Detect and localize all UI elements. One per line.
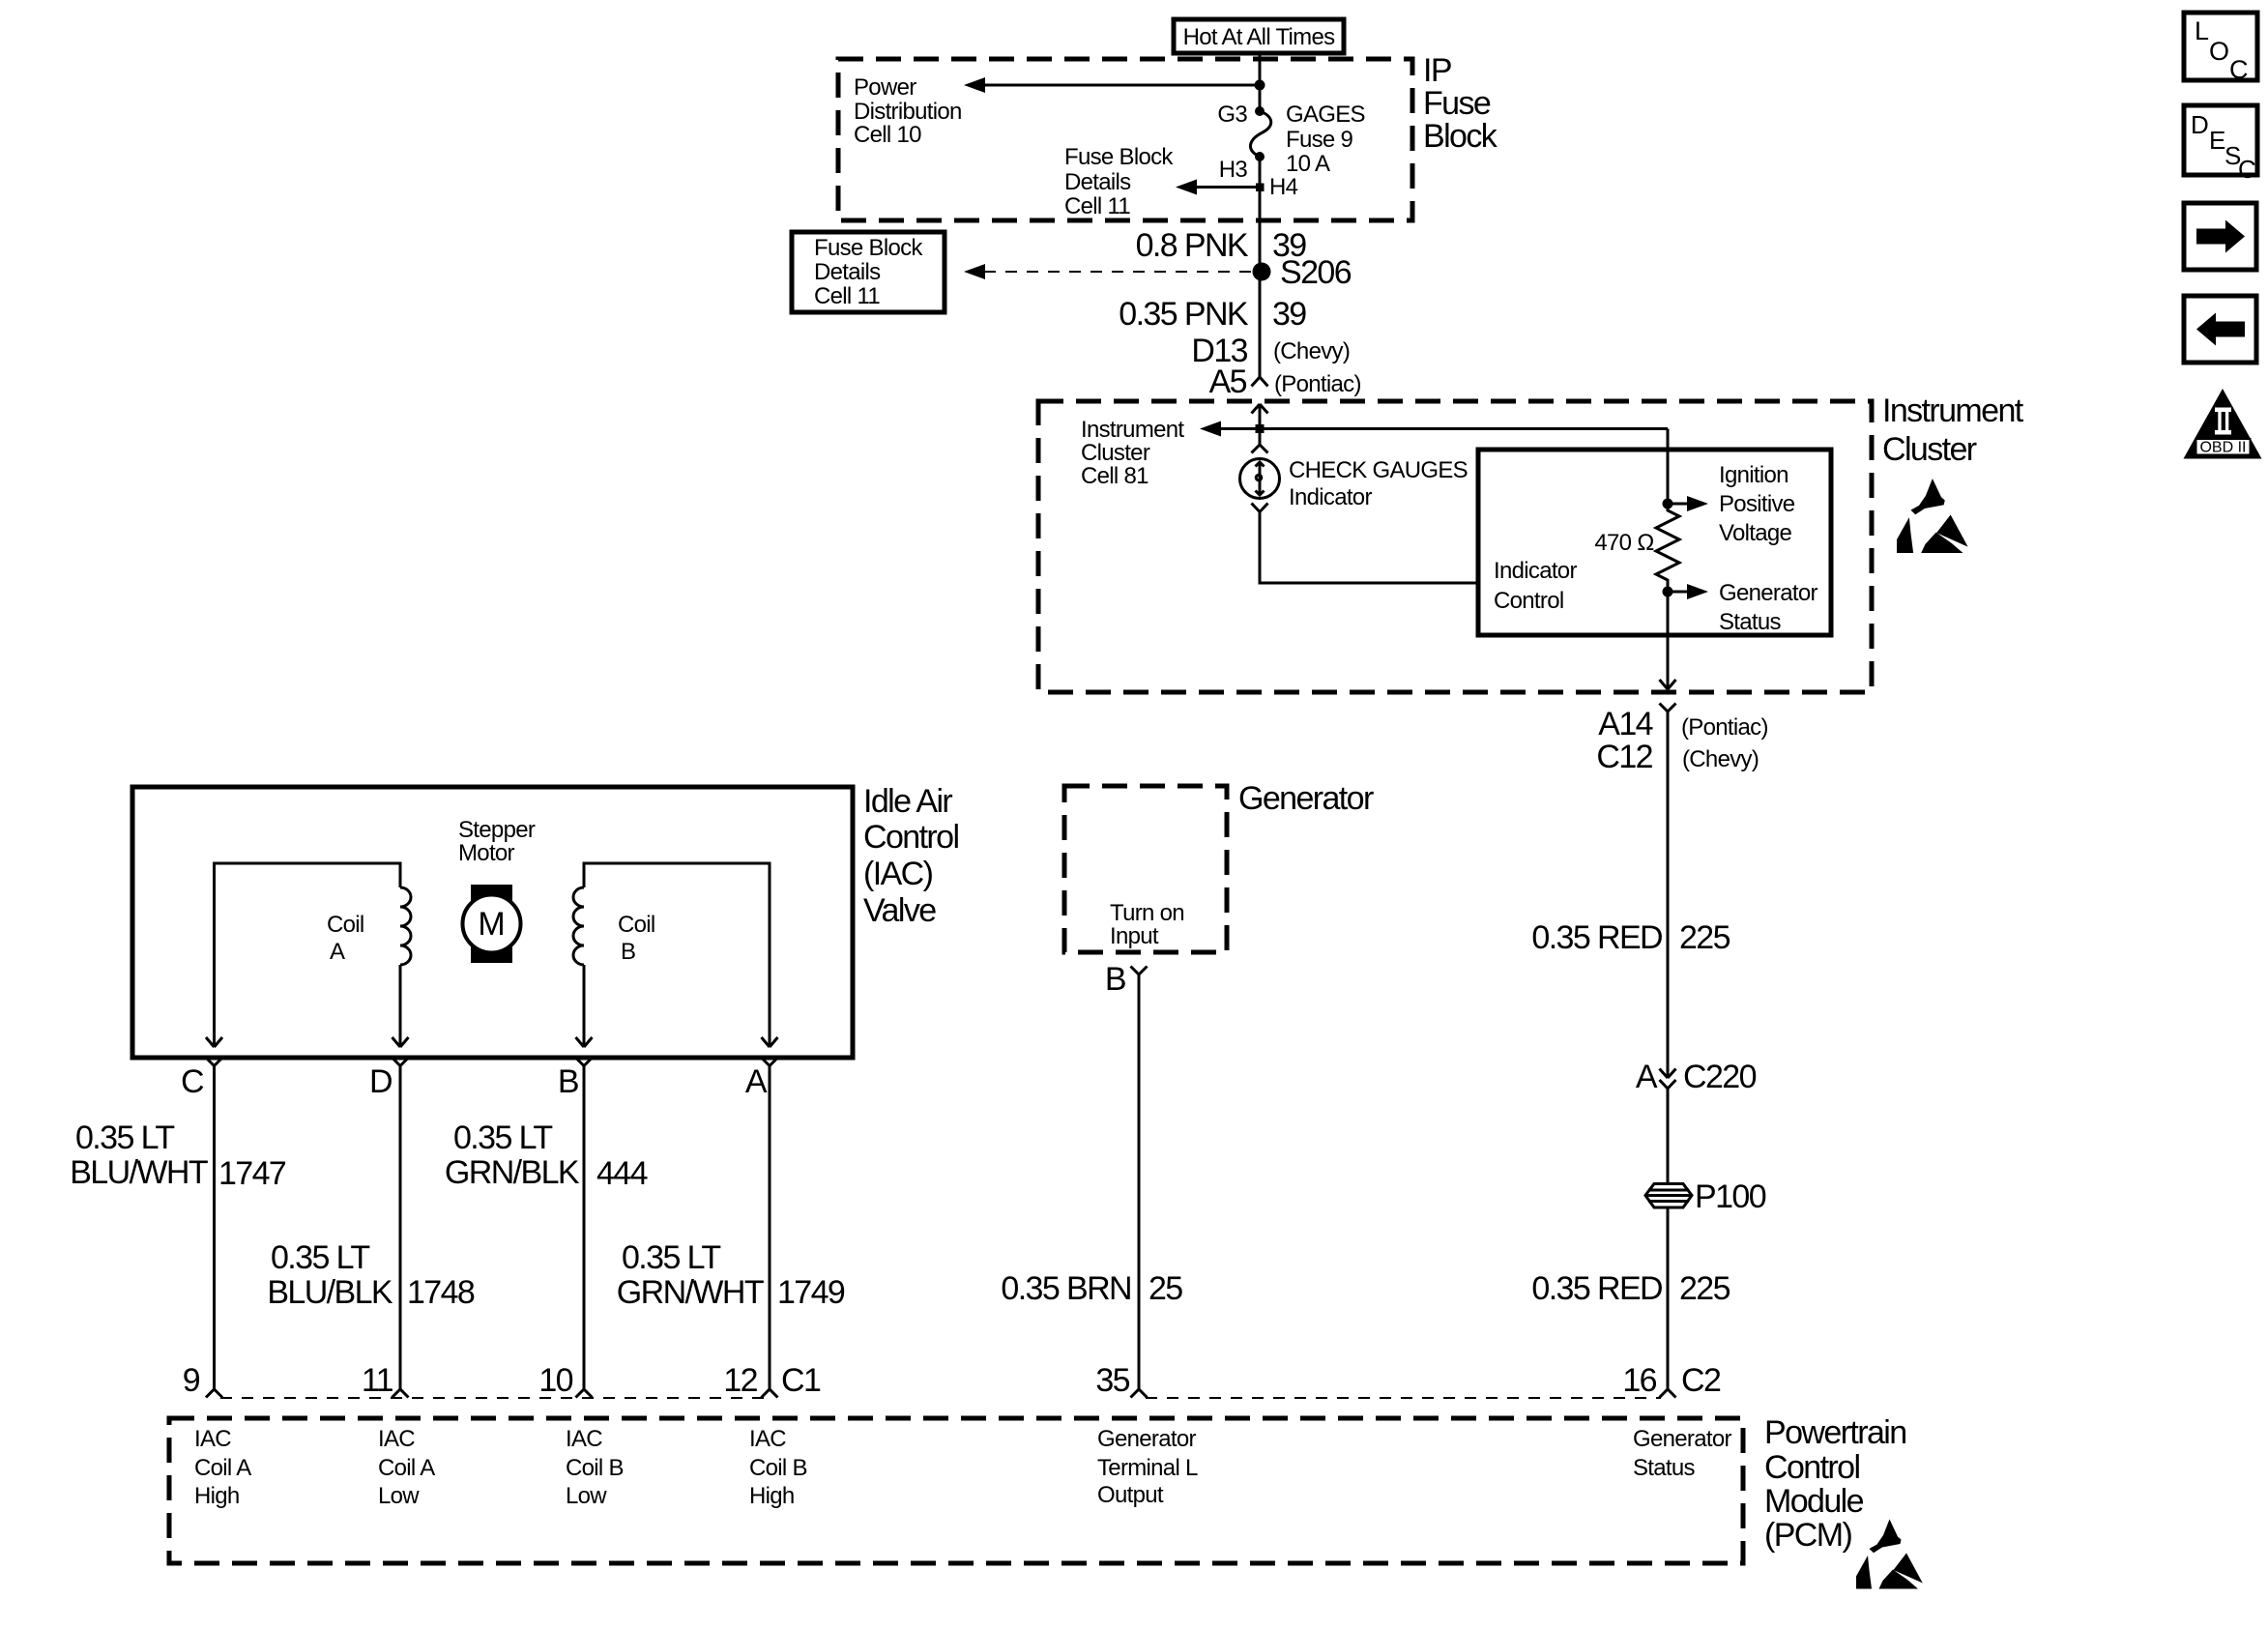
svg-text:16: 16 [1622, 1362, 1656, 1399]
svg-text:11: 11 [362, 1362, 393, 1399]
wire P100 to PCM [1667, 1208, 1670, 1389]
svg-text:225: 225 [1679, 919, 1730, 956]
svg-text:9: 9 [183, 1362, 200, 1399]
svg-text:Status: Status [1719, 609, 1782, 635]
svg-text:BLU/BLK: BLU/BLK [267, 1274, 393, 1311]
svg-text:(IAC): (IAC) [863, 856, 933, 892]
svg-text:Coil: Coil [618, 912, 655, 938]
margin icon OBD II triangle [2184, 389, 2262, 459]
svg-text:Indicator: Indicator [1289, 484, 1372, 510]
svg-text:444: 444 [596, 1155, 648, 1192]
pin H4 junction [1256, 184, 1265, 192]
svg-text:C220: C220 [1683, 1059, 1757, 1095]
coil B arrows to terminals [576, 1036, 593, 1047]
margin icon forward arrow box [2184, 203, 2256, 270]
wire from junction to resistor [1667, 429, 1670, 505]
svg-text:H4: H4 [1269, 174, 1298, 200]
wire: battery feed down from Hot At All Times [1259, 53, 1262, 111]
svg-text:0.35 BRN: 0.35 BRN [1001, 1270, 1131, 1307]
svg-text:Cluster: Cluster [1081, 440, 1150, 466]
svg-text:Fuse 9: Fuse 9 [1286, 127, 1353, 153]
svg-text:A: A [745, 1063, 768, 1100]
svg-text:0.35 LT: 0.35 LT [453, 1119, 552, 1156]
svg-text:Instrument: Instrument [1081, 417, 1184, 443]
svg-text:E: E [2209, 126, 2225, 155]
wire down to cluster connector with arrow [1667, 592, 1670, 689]
svg-text:Fuse Block: Fuse Block [814, 235, 923, 261]
svg-text:Output: Output [1097, 1482, 1164, 1508]
margin icon DESC box [2184, 105, 2257, 175]
wire IAC B to PCM 10 [583, 1066, 586, 1390]
pin H3 [1255, 152, 1265, 161]
svg-text:Control: Control [1764, 1449, 1859, 1486]
svg-text:OBD II: OBD II [2199, 440, 2246, 456]
svg-text:Powertrain: Powertrain [1764, 1414, 1906, 1451]
svg-text:0.8 PNK: 0.8 PNK [1136, 227, 1249, 264]
svg-text:Fuse: Fuse [1423, 85, 1491, 122]
svg-text:0.35 RED: 0.35 RED [1531, 919, 1662, 956]
svg-text:O: O [2209, 37, 2229, 66]
connector pin A [762, 1058, 778, 1066]
wire down to indicator lamp [1259, 433, 1262, 445]
svg-text:B: B [558, 1063, 578, 1100]
svg-text:Cell 11: Cell 11 [814, 283, 880, 309]
svg-text:High: High [194, 1483, 240, 1509]
dashed wire from S206 to Fuse Block Details box [980, 271, 1251, 273]
Idle Air Control (IAC) Valve box [132, 787, 853, 1058]
pin 12 [762, 1389, 778, 1398]
svg-text:P100: P100 [1695, 1178, 1766, 1215]
svg-text:Voltage: Voltage [1719, 520, 1792, 546]
svg-text:M: M [478, 906, 505, 943]
margin icon back arrow box [2184, 296, 2256, 363]
svg-text:Valve: Valve [863, 892, 936, 929]
pin 11 [393, 1389, 409, 1398]
svg-text:GAGES: GAGES [1286, 102, 1365, 128]
svg-text:Positive: Positive [1719, 491, 1795, 517]
coil A of IAC valve [215, 863, 401, 1036]
svg-text:L: L [2195, 16, 2209, 45]
Generator dashed box [1064, 786, 1227, 952]
wire IAC D to PCM 11 [399, 1066, 402, 1390]
svg-text:Control: Control [1494, 588, 1563, 614]
Fuse Block Details Cell 11 box [792, 232, 945, 312]
wire generator terminal L to PCM [1138, 974, 1141, 1389]
svg-text:225: 225 [1679, 1270, 1730, 1307]
Indicator Control box [1478, 450, 1831, 635]
motor M1 stepper motor symbol [471, 885, 512, 963]
svg-text:Module: Module [1764, 1483, 1864, 1520]
svg-text:C1: C1 [781, 1362, 821, 1399]
ESD sensitive symbol (PCM) [1856, 1520, 1923, 1589]
coil B of IAC valve [584, 863, 770, 1036]
svg-text:G3: G3 [1217, 102, 1247, 128]
svg-text:Details: Details [1064, 169, 1131, 195]
svg-text:Generator: Generator [1238, 780, 1374, 817]
resistor R 470 ohm [1656, 504, 1679, 592]
svg-text:10: 10 [538, 1362, 572, 1399]
svg-text:25: 25 [1149, 1270, 1182, 1307]
svg-text:Instrument: Instrument [1882, 392, 2024, 429]
svg-text:1747: 1747 [218, 1155, 286, 1192]
connector pin B [576, 1058, 593, 1066]
svg-text:IAC: IAC [378, 1426, 415, 1452]
svg-text:C12: C12 [1596, 739, 1652, 775]
svg-text:(Chevy): (Chevy) [1273, 338, 1350, 364]
svg-text:A: A [330, 939, 345, 965]
svg-text:39: 39 [1272, 296, 1306, 333]
svg-text:Coil: Coil [327, 912, 364, 938]
svg-text:35: 35 [1095, 1362, 1129, 1399]
connector A5/D13 female half [1252, 377, 1268, 387]
wire IAC C to PCM 9 [213, 1066, 216, 1390]
svg-text:IAC: IAC [749, 1426, 786, 1452]
svg-text:0.35 RED: 0.35 RED [1531, 1270, 1662, 1307]
svg-text:Details: Details [814, 259, 881, 285]
svg-text:A: A [1636, 1059, 1658, 1095]
svg-text:A14: A14 [1598, 706, 1652, 742]
svg-text:Indicator: Indicator [1494, 558, 1577, 584]
svg-text:B: B [621, 939, 635, 965]
node B+: Hot At All Times box [1174, 19, 1344, 53]
svg-text:D: D [369, 1063, 392, 1100]
svg-text:Cluster: Cluster [1882, 431, 1977, 468]
svg-text:10 A: 10 A [1286, 151, 1330, 177]
pin 10 [576, 1389, 593, 1398]
connector A14/C12 female half [1660, 704, 1676, 712]
svg-text:H3: H3 [1219, 157, 1248, 183]
svg-text:B: B [1105, 961, 1125, 998]
wire C220 to P100 [1667, 1089, 1670, 1183]
svg-text:Cell 10: Cell 10 [854, 122, 921, 148]
pin 35 [1131, 1389, 1148, 1398]
node: ignition positive voltage tap [1663, 499, 1673, 509]
svg-text:(Pontiac): (Pontiac) [1274, 371, 1361, 397]
svg-text:Turn on: Turn on [1110, 900, 1184, 926]
svg-text:(Chevy): (Chevy) [1682, 746, 1759, 772]
connector C220 pin A [1660, 1069, 1676, 1079]
svg-text:D: D [2191, 110, 2209, 139]
svg-text:0.35 LT: 0.35 LT [75, 1119, 174, 1156]
connector into lamp [1252, 445, 1268, 453]
svg-text:470 Ω: 470 Ω [1594, 530, 1654, 556]
svg-text:(Pontiac): (Pontiac) [1681, 714, 1768, 741]
svg-text:IP: IP [1423, 52, 1451, 89]
wire lamp to Indicator Control [1260, 512, 1478, 584]
connector C1 dashed line [220, 1397, 765, 1399]
svg-text:Power: Power [854, 74, 916, 101]
fuse F9 GAGES 10A element [1250, 111, 1270, 157]
svg-text:Status: Status [1633, 1455, 1696, 1481]
svg-text:12: 12 [723, 1362, 757, 1399]
svg-text:GRN/WHT: GRN/WHT [617, 1274, 764, 1311]
svg-text:C: C [2229, 55, 2249, 84]
wire to Power Distribution with arrow [982, 84, 1260, 87]
svg-text:C: C [181, 1063, 204, 1100]
junction in instrument cluster [1256, 424, 1265, 433]
junction at power distribution tap [1255, 80, 1265, 91]
svg-text:Coil B: Coil B [749, 1455, 807, 1481]
wire to Instrument Cluster Cell 81 with arrow [1217, 427, 1668, 430]
wire fuse to S206 [1259, 157, 1262, 272]
svg-text:Coil A: Coil A [194, 1455, 251, 1481]
svg-text:Coil A: Coil A [378, 1455, 435, 1481]
svg-text:Cell 81: Cell 81 [1081, 463, 1149, 489]
node: generator status tap [1663, 587, 1673, 597]
IP Fuse Block dashed box [838, 59, 1412, 220]
margin icon LOC box [2184, 13, 2257, 80]
svg-text:S206: S206 [1280, 254, 1352, 291]
svg-text:Cell 11: Cell 11 [1064, 193, 1130, 219]
svg-text:Stepper: Stepper [458, 817, 536, 843]
svg-text:Ignition: Ignition [1719, 462, 1788, 488]
coil A arrows to terminals [206, 1036, 222, 1047]
wire IAC A to PCM 12 [769, 1066, 771, 1390]
svg-text:High: High [749, 1483, 795, 1509]
svg-text:Generator: Generator [1633, 1426, 1731, 1452]
svg-text:Distribution: Distribution [854, 99, 962, 125]
svg-text:Generator: Generator [1097, 1426, 1196, 1452]
svg-text:0.35 PNK: 0.35 PNK [1119, 296, 1249, 333]
svg-text:A5: A5 [1209, 363, 1247, 400]
grommet P100 [1645, 1184, 1692, 1208]
svg-text:0.35 LT: 0.35 LT [271, 1239, 369, 1276]
svg-text:CHECK GAUGES: CHECK GAUGES [1289, 457, 1468, 483]
svg-text:(PCM): (PCM) [1764, 1517, 1851, 1554]
svg-text:C2: C2 [1681, 1362, 1721, 1399]
wire to Fuse Block Details with arrow [1193, 186, 1260, 189]
svg-text:Generator: Generator [1719, 580, 1817, 606]
lamp L1: CHECK GAUGES indicator [1240, 459, 1280, 499]
svg-text:Low: Low [378, 1483, 420, 1509]
connector A5 male half (arrow up) [1252, 404, 1268, 414]
svg-text:Fuse Block: Fuse Block [1064, 144, 1174, 170]
Instrument Cluster dashed box [1038, 401, 1872, 692]
connector C2 dashed line [1146, 1397, 1661, 1399]
svg-text:Idle Air: Idle Air [863, 783, 952, 820]
connector out of lamp [1252, 504, 1268, 512]
svg-text:Terminal L: Terminal L [1097, 1455, 1198, 1481]
svg-text:1749: 1749 [777, 1274, 845, 1311]
wire S206 down to connector [1259, 272, 1262, 377]
wire A14 to C220 [1667, 712, 1670, 1078]
svg-text:1748: 1748 [407, 1274, 475, 1311]
connector pin D [393, 1058, 409, 1066]
svg-text:Block: Block [1423, 118, 1498, 155]
svg-text:BLU/WHT: BLU/WHT [70, 1154, 208, 1191]
svg-text:Hot At All Times: Hot At All Times [1183, 24, 1336, 50]
svg-text:GRN/BLK: GRN/BLK [445, 1154, 580, 1191]
connector pin C [206, 1058, 222, 1066]
svg-text:Motor: Motor [458, 840, 515, 866]
svg-text:C: C [2238, 155, 2256, 184]
svg-text:Low: Low [566, 1483, 607, 1509]
svg-text:Input: Input [1110, 923, 1159, 949]
svg-text:0.35 LT: 0.35 LT [622, 1239, 720, 1276]
svg-text:Coil B: Coil B [566, 1455, 624, 1481]
splice S206 [1253, 263, 1271, 281]
svg-text:Control: Control [863, 819, 958, 856]
pin 9 [206, 1389, 222, 1398]
Powertrain Control Module dashed box [169, 1418, 1743, 1563]
svg-text:IAC: IAC [566, 1426, 602, 1452]
ESD sensitive symbol (Instrument Cluster) [1897, 479, 1968, 553]
pin 16 [1660, 1389, 1676, 1398]
connector pin B of generator [1131, 967, 1148, 975]
svg-text:IAC: IAC [194, 1426, 231, 1452]
